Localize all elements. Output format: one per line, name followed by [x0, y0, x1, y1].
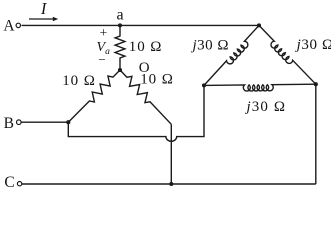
node delta bottom-left	[202, 83, 206, 87]
svg-text:j30 Ω: j30 Ω	[245, 99, 287, 115]
svg-text:A: A	[3, 18, 15, 35]
svg-text:10 Ω: 10 Ω	[62, 73, 96, 89]
inductor j30 bottom (bottom-left to bottom-right)	[204, 84, 316, 91]
inductor j30 left side (apex to bottom-left)	[204, 25, 259, 85]
wire right edge vertical	[315, 84, 317, 184]
terminal A	[16, 23, 20, 27]
terminal C	[17, 182, 21, 186]
svg-text:10 Ω: 10 Ω	[140, 72, 174, 88]
wire B	[21, 121, 68, 123]
resistor 10ohm vertical (a to O)	[115, 25, 125, 70]
svg-text:j30 Ω: j30 Ω	[295, 37, 331, 53]
wire right-Y corner down to bottom	[170, 124, 172, 184]
wire B corner down and right to delta bottom-left, with hop over vertical	[68, 85, 204, 141]
current arrow I	[29, 18, 55, 20]
inductor j30 right side (apex to bottom-right)	[259, 25, 316, 84]
resistor 10ohm right diagonal (O to node n2)	[120, 70, 171, 124]
node apex delta	[257, 23, 261, 27]
svg-text:j30 Ω: j30 Ω	[191, 37, 230, 53]
node delta bottom-right	[314, 82, 318, 86]
junction bottom	[169, 182, 173, 186]
svg-text:B: B	[4, 115, 14, 132]
terminal B	[17, 120, 22, 125]
svg-text:10 Ω: 10 Ω	[129, 39, 163, 55]
wire C bottom	[22, 183, 316, 185]
node a	[118, 23, 122, 27]
wire A-to-apex	[22, 24, 259, 26]
svg-text:+: +	[100, 25, 108, 40]
svg-text:a: a	[116, 7, 123, 24]
resistor 10ohm left diagonal (O to B corner)	[68, 70, 120, 122]
node O	[118, 68, 122, 72]
svg-text:I: I	[40, 0, 48, 18]
svg-text:C: C	[4, 174, 14, 191]
junction B corner	[66, 120, 70, 124]
svg-text:−: −	[98, 52, 105, 67]
